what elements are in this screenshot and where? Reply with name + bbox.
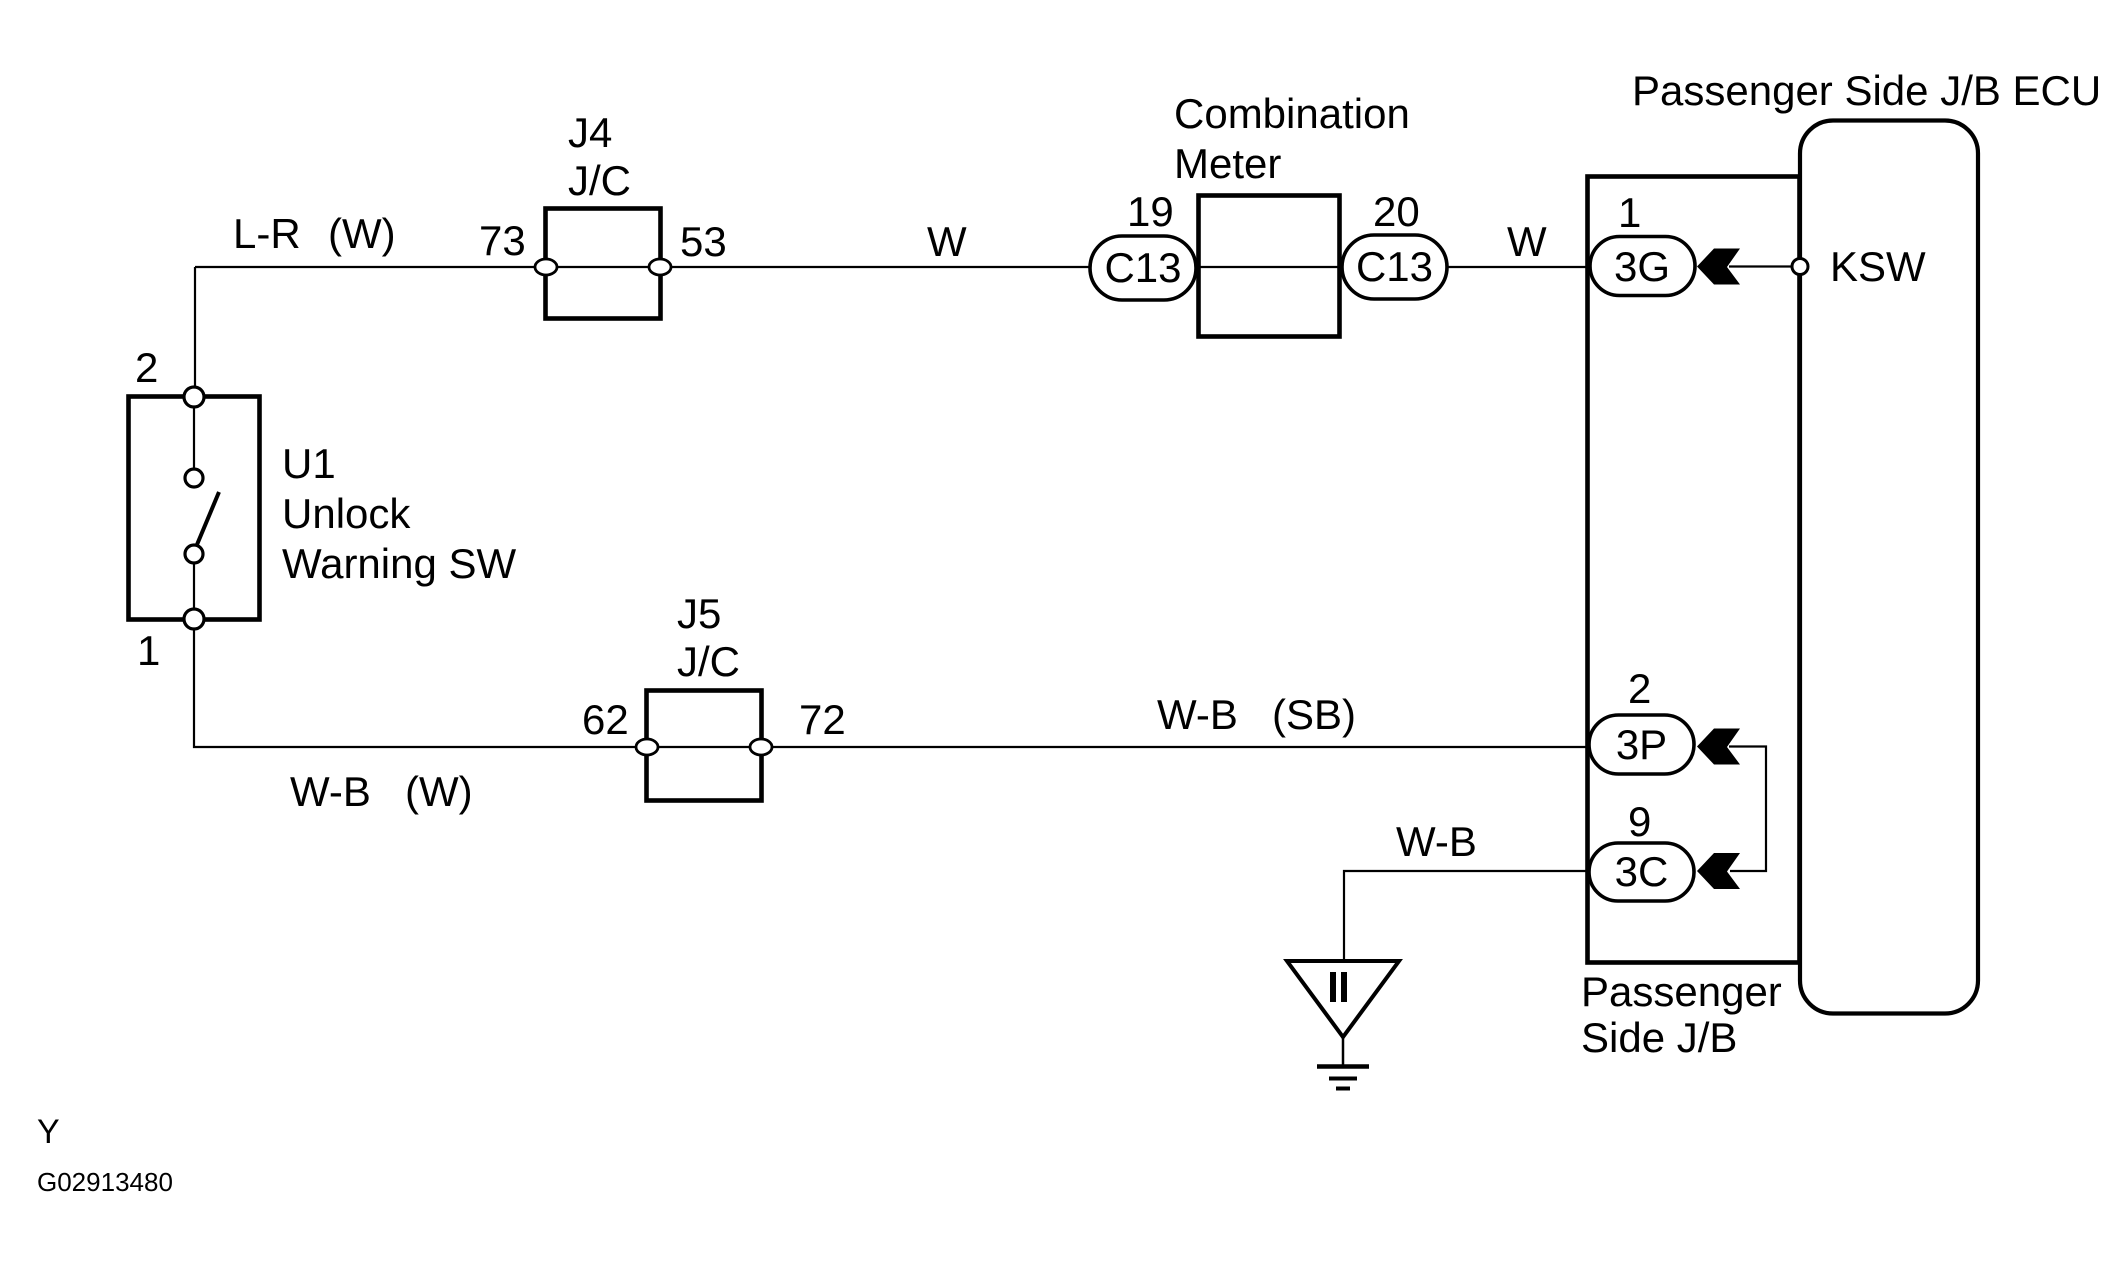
svg-text:(SB): (SB) xyxy=(1272,691,1356,738)
svg-text:J/C: J/C xyxy=(677,638,740,685)
ground triangle xyxy=(1287,961,1399,1037)
svg-text:Passenger Side J/B ECU: Passenger Side J/B ECU xyxy=(1632,67,2101,114)
connector 3G oval xyxy=(1590,237,1695,296)
svg-text:W: W xyxy=(1507,218,1547,265)
svg-text:Y: Y xyxy=(37,1113,60,1151)
switch contact circle lower xyxy=(185,545,203,563)
svg-text:1: 1 xyxy=(137,627,160,674)
svg-text:62: 62 xyxy=(582,696,629,743)
connector C13 right oval xyxy=(1342,235,1447,299)
svg-text:2: 2 xyxy=(1628,665,1651,712)
svg-text:53: 53 xyxy=(680,218,727,265)
svg-text:Side J/B: Side J/B xyxy=(1581,1014,1737,1061)
svg-text:W-B: W-B xyxy=(1157,691,1238,738)
wire top run L-R/W from switch pin2 to 3G xyxy=(195,266,1589,268)
svg-text:20: 20 xyxy=(1373,188,1420,235)
junction connector J5 box xyxy=(647,691,762,801)
svg-text:KSW: KSW xyxy=(1830,243,1926,290)
ground bar 2 xyxy=(1329,1077,1357,1081)
switch internal wire upper xyxy=(193,397,195,478)
passenger side J/B box xyxy=(1588,177,1800,963)
svg-text:Passenger: Passenger xyxy=(1581,968,1782,1015)
svg-text:Meter: Meter xyxy=(1174,140,1281,187)
svg-text:W: W xyxy=(927,218,967,265)
svg-text:3C: 3C xyxy=(1615,848,1669,895)
svg-text:L-R: L-R xyxy=(233,210,301,257)
junction connector J4 box xyxy=(546,209,661,319)
svg-text:U1: U1 xyxy=(282,440,336,487)
svg-text:9: 9 xyxy=(1628,798,1651,845)
connector 3C oval xyxy=(1589,843,1694,901)
ground stub xyxy=(1342,1037,1345,1066)
svg-text:J/C: J/C xyxy=(568,157,631,204)
J4 pin 53 ellipse xyxy=(649,259,671,275)
svg-text:3P: 3P xyxy=(1616,721,1667,768)
svg-text:Combination: Combination xyxy=(1174,90,1410,137)
J5 pin 72 ellipse xyxy=(750,739,772,755)
switch pin 1 circle xyxy=(184,609,204,629)
wire loop 3P arrow to 3C arrow xyxy=(1729,747,1766,872)
svg-text:G02913480: G02913480 xyxy=(37,1167,173,1197)
svg-text:C13: C13 xyxy=(1104,244,1181,291)
svg-text:W-B: W-B xyxy=(1396,818,1477,865)
svg-text:2: 2 xyxy=(135,344,158,391)
ground bar 1 xyxy=(1317,1064,1369,1069)
wire from switch pin 1 down and bottom run to 3P xyxy=(194,619,1589,747)
ground II bars xyxy=(1330,972,1336,1002)
ECU rounded box xyxy=(1800,121,1978,1014)
svg-text:J4: J4 xyxy=(568,109,612,156)
connector C13 left oval xyxy=(1090,236,1196,300)
svg-text:(W): (W) xyxy=(405,768,473,815)
svg-text:1: 1 xyxy=(1618,189,1641,236)
arrow at 3C xyxy=(1697,853,1740,889)
switch blade xyxy=(196,492,219,547)
J5 pin 62 ellipse xyxy=(636,739,658,755)
svg-text:C13: C13 xyxy=(1356,243,1433,290)
svg-text:(W): (W) xyxy=(328,210,396,257)
wire 3G arrow to KSW node xyxy=(1729,265,1794,267)
arrow at 3P xyxy=(1697,729,1740,765)
switch contact circle upper xyxy=(185,469,203,487)
svg-text:72: 72 xyxy=(799,696,846,743)
connector 3P oval xyxy=(1589,715,1694,774)
arrow at 3G xyxy=(1697,249,1740,285)
combination meter box xyxy=(1199,196,1340,337)
svg-text:W-B: W-B xyxy=(290,768,371,815)
switch pin 2 circle xyxy=(184,387,204,407)
svg-text:19: 19 xyxy=(1127,188,1174,235)
svg-text:Warning SW: Warning SW xyxy=(282,540,517,587)
ground bar 3 xyxy=(1336,1087,1350,1091)
switch U1 box xyxy=(129,397,260,620)
switch internal wire lower xyxy=(193,554,195,619)
wire 3C to ground drop xyxy=(1344,871,1589,961)
svg-text:J5: J5 xyxy=(677,590,721,637)
svg-text:Unlock: Unlock xyxy=(282,490,411,537)
svg-text:73: 73 xyxy=(479,217,526,264)
J4 pin 73 ellipse xyxy=(535,259,557,275)
wire vertical drop to switch pin 2 xyxy=(194,267,196,397)
KSW node circle xyxy=(1792,259,1808,275)
svg-text:3G: 3G xyxy=(1614,243,1670,290)
